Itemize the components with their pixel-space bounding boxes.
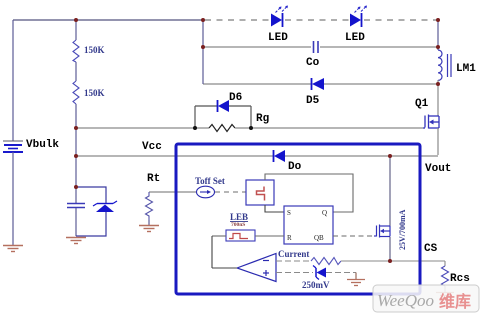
wire Vcc line	[76, 155, 273, 157]
diode D6 bypass right stub	[250, 106, 252, 128]
wire one-shot top loop to latch Q	[265, 174, 353, 212]
wire gate line right	[235, 127, 423, 129]
wire internal mosfet drain	[389, 156, 391, 226]
battery Vbulk	[3, 141, 23, 152]
comparator U2	[237, 254, 276, 282]
wire comparator output	[212, 267, 237, 269]
svg-text:S: S	[287, 209, 291, 217]
LEB red pulse symbol	[229, 234, 248, 239]
svg-text:150K: 150K	[84, 88, 105, 98]
wire zener branch top	[76, 187, 106, 204]
svg-text:Vcc: Vcc	[142, 141, 162, 153]
wire rail2 left	[203, 46, 311, 48]
svg-text:QB: QB	[314, 234, 324, 242]
svg-text:25V/700mA: 25V/700mA	[398, 209, 407, 250]
svg-text:Rcs: Rcs	[450, 273, 470, 285]
zener 250mV	[313, 266, 326, 280]
resistor Rg	[209, 125, 235, 132]
svg-text:LED: LED	[268, 32, 288, 44]
wire zener branch bottom	[76, 212, 106, 236]
svg-text:700nS: 700nS	[231, 222, 245, 228]
svg-text:Rt: Rt	[147, 173, 160, 185]
wire LEB input	[212, 235, 226, 237]
wire gate line left	[76, 127, 209, 129]
wire Toff to one-shot (dashed)	[215, 191, 246, 193]
comparator minus sign	[263, 260, 269, 262]
comparator plus sign	[263, 270, 269, 276]
wire Rcs to ground	[444, 286, 446, 292]
svg-text:LM1: LM1	[456, 63, 476, 75]
wire vertical x203	[202, 20, 204, 84]
wire top rail dashed segment C	[364, 19, 438, 21]
svg-text:Do: Do	[288, 161, 302, 173]
capacitor Co	[314, 41, 319, 53]
wire between resistors	[75, 62, 77, 81]
ground (cap/zener)	[66, 238, 86, 244]
wire Rt to ground	[148, 220, 150, 225]
svg-text:D6: D6	[229, 92, 242, 104]
svg-text:Current: Current	[278, 249, 309, 259]
svg-text:Vout: Vout	[425, 163, 451, 175]
svg-text:WeeQoo: WeeQoo	[377, 291, 434, 310]
wire top rail dashed segment A	[205, 19, 271, 21]
svg-text:CS: CS	[424, 243, 438, 255]
svg-text:LED: LED	[345, 32, 365, 44]
wire D6 top	[195, 105, 217, 107]
wire LM1 to Q1 drain	[437, 80, 439, 116]
resistor R1 150K	[73, 40, 79, 62]
wire cap to ground	[75, 208, 77, 236]
resistor R2 150K	[73, 81, 79, 104]
svg-text:250mV: 250mV	[302, 280, 330, 290]
diode D6 bypass left stub	[194, 106, 196, 128]
resistor Rt	[146, 192, 153, 220]
ground (Rcs)	[436, 293, 454, 299]
current source Toff Set	[197, 186, 215, 198]
zener ZD1	[93, 201, 117, 212]
svg-text:Rg: Rg	[256, 113, 269, 125]
wire top rail solid	[13, 19, 203, 21]
wire comp minus input	[276, 260, 311, 262]
resistor (CS filter)	[311, 258, 341, 265]
svg-text:Vbulk: Vbulk	[26, 139, 59, 151]
watermark	[373, 285, 479, 312]
transistor Q1 (MOSFET)	[423, 115, 439, 129]
wire rail2 right	[320, 46, 438, 48]
wire CS down	[444, 261, 446, 266]
diode D6	[218, 100, 230, 112]
wire LEB out to latch R	[255, 235, 284, 237]
svg-text:维库: 维库	[439, 292, 471, 311]
ground (battery)	[3, 246, 23, 252]
svg-text:Q1: Q1	[415, 98, 429, 110]
resistor Rcs	[442, 266, 449, 286]
svg-text:LEB: LEB	[230, 212, 248, 222]
junction (Rg left, black)	[193, 126, 197, 130]
junction dots dark red	[74, 18, 440, 263]
ground (Rt)	[139, 226, 159, 232]
svg-text:Toff Set: Toff Set	[195, 176, 225, 186]
wire internal mosfet source	[389, 237, 391, 261]
diode D5	[312, 78, 325, 90]
wire battery to ground	[12, 152, 14, 245]
svg-text:Q: Q	[322, 209, 327, 217]
wire comp plus input	[276, 272, 313, 274]
svg-text:150K: 150K	[84, 45, 105, 55]
one-shot block U1A	[246, 180, 274, 205]
wire Q1 source down	[437, 128, 439, 155]
wire comp out vertical	[211, 236, 213, 268]
wire one-shot out to latch S	[265, 205, 284, 212]
transistor M1 (internal MOSFET)	[374, 225, 390, 238]
svg-text:R: R	[287, 234, 292, 242]
capacitor C1	[67, 204, 85, 208]
wire to CS pin	[341, 260, 445, 262]
wire top rail dashed segment B	[285, 19, 350, 21]
wire left bus vertical	[12, 20, 14, 141]
wire zener to ground	[326, 272, 356, 274]
junction (Rg right, black)	[249, 126, 253, 130]
IC box U1	[176, 144, 420, 294]
wire latch QB to mosfet gate (dashed)	[333, 235, 374, 237]
svg-text:Co: Co	[306, 57, 320, 69]
svg-text:D5: D5	[306, 95, 320, 107]
wire divider bus lower	[75, 104, 77, 203]
wire vertical x438 top	[437, 20, 439, 50]
diode Do	[274, 150, 286, 162]
wire divider bus upper	[75, 20, 77, 40]
wire Rt line	[149, 191, 196, 193]
one-shot red symbol	[257, 187, 265, 201]
LED D2	[350, 6, 367, 28]
wire rail3 right	[324, 83, 438, 85]
LEB block	[226, 230, 255, 241]
inductor LM1	[438, 50, 451, 80]
LED D1	[271, 6, 288, 28]
latch block U1B	[284, 206, 333, 244]
ground (250mV)	[347, 280, 365, 286]
wire rail3 left	[203, 83, 312, 85]
